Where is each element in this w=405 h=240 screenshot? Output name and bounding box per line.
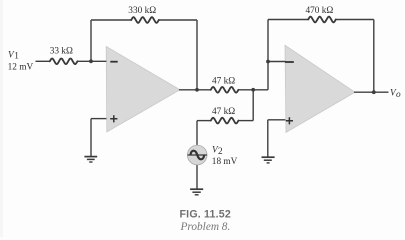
- wire U2 noninverting input: [268, 119, 286, 121]
- wire U2 + down to ground: [267, 120, 269, 157]
- wire feedback down to U1 output: [196, 20, 198, 90]
- ground G2 (V2 source): [190, 189, 203, 195]
- wire to U2 inverting input: [268, 61, 285, 63]
- node A junction dot: [89, 59, 93, 63]
- resistor R3 47k zigzag top: [211, 87, 239, 93]
- svg-text:47 kΩ: 47 kΩ: [212, 76, 235, 86]
- wire U1 output: [179, 89, 211, 91]
- wire feedback top right: [159, 19, 197, 21]
- wire second 47k left lead: [197, 120, 211, 122]
- U2 plus sign: [286, 117, 293, 124]
- svg-text:12 mV: 12 mV: [8, 63, 34, 73]
- wire V2 source to ground: [196, 165, 198, 190]
- wire 47k-2 right to riser: [238, 120, 253, 122]
- op-amp U2: [285, 45, 355, 132]
- wire U2 output to Vo: [354, 91, 389, 93]
- U1 minus sign: [110, 61, 117, 63]
- ground G3 (U2 noninverting): [262, 157, 275, 163]
- svg-text:47 kΩ: 47 kΩ: [212, 107, 235, 117]
- wire riser 47k-2 to node B: [252, 90, 254, 121]
- svg-text:33 kΩ: 33 kΩ: [50, 47, 73, 57]
- wire V1 lead: [36, 60, 51, 62]
- wire 47k-1 to node B: [238, 89, 268, 91]
- resistor R1 33k zigzag: [50, 59, 78, 65]
- svg-text:1: 1: [14, 52, 19, 62]
- wire node A up to feedback: [90, 20, 92, 61]
- node U1 output junction dot: [195, 88, 199, 92]
- resistor R2 330k zigzag: [131, 17, 159, 23]
- svg-text:Problem 8.: Problem 8.: [180, 221, 231, 233]
- ground G1 (U1 noninverting): [84, 157, 97, 162]
- wire up to 470k feedback: [267, 20, 269, 62]
- wire 470k feedback top left: [268, 19, 308, 21]
- U2 minus sign: [285, 61, 294, 63]
- svg-text:18 mV: 18 mV: [212, 157, 238, 167]
- wire U1 noninverting input: [91, 118, 106, 120]
- wire 470k feedback top right: [336, 19, 374, 21]
- wire node A to U1 inverting input: [77, 60, 106, 62]
- resistor R4 47k zigzag bottom: [211, 118, 239, 124]
- source V2 (AC): [187, 145, 207, 165]
- U1 plus sign: [110, 115, 117, 122]
- node U2 inverting junction dot: [266, 60, 270, 64]
- node U2 output junction dot: [372, 90, 376, 94]
- svg-text:330 kΩ: 330 kΩ: [128, 6, 156, 16]
- wire U1 + down to ground: [90, 119, 92, 156]
- svg-text:o: o: [396, 90, 401, 100]
- svg-text:FIG. 11.52: FIG. 11.52: [180, 209, 231, 221]
- wire feedback down to U2 output: [373, 20, 375, 93]
- wire feedback top left: [91, 19, 131, 21]
- wire down to V2 source: [196, 121, 198, 146]
- wire node B up to U2 inverting row: [267, 62, 269, 90]
- svg-text:2: 2: [218, 147, 223, 157]
- node B junction dot (47k join): [251, 88, 255, 92]
- svg-text:470 kΩ: 470 kΩ: [306, 6, 334, 16]
- resistor R5 470k zigzag: [308, 17, 336, 23]
- op-amp U1: [106, 46, 180, 131]
